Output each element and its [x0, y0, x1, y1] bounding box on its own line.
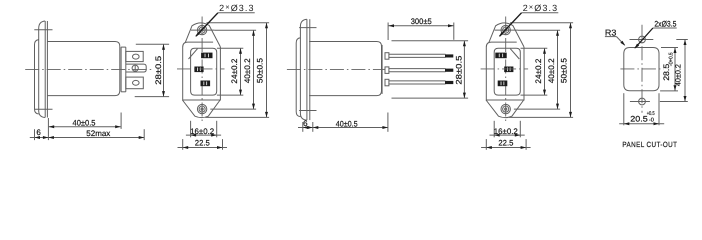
panel cut-out horizontal center line: [620, 68, 663, 70]
pin contact top view 4: [496, 53, 506, 58]
dimension 6 and 52max view 1: [30, 128, 144, 140]
mounting hole top Ø3.3 view 4: [495, 25, 518, 34]
dimension 40±0.2 holes view 4: [514, 30, 560, 109]
mounting ear bottom view 4: [486, 100, 524, 118]
mounting ear bottom view 2: [182, 100, 220, 118]
svg-text:+0.5: +0.5: [669, 53, 675, 62]
faston tab top (line terminal): [126, 51, 143, 61]
mounting ear top view 2: [185, 23, 220, 47]
svg-text:22.5: 22.5: [195, 139, 211, 148]
bezel face outline view 2: [183, 42, 221, 100]
panel hole bottom Ø3.5: [630, 98, 688, 105]
label 2×Ø3.3 with leader view 4: [499, 3, 558, 37]
horizontal center line view 4: [481, 68, 528, 70]
center line view 1: [25, 68, 154, 70]
pin contact top view 2: [202, 53, 212, 58]
svg-text:+0.5: +0.5: [647, 111, 655, 117]
wire 1 (line lead): [389, 54, 453, 57]
panel hole top Ø3.5: [630, 36, 688, 43]
dimension 22.5 bottom view 4: [481, 139, 530, 150]
wire 3 (neutral lead): [389, 81, 453, 84]
svg-text:40±0.5: 40±0.5: [336, 119, 358, 128]
svg-text:40±0.5: 40±0.5: [73, 119, 97, 128]
faston tab middle (ground terminal): [126, 64, 146, 72]
svg-text:50±0.5: 50±0.5: [560, 58, 569, 84]
svg-text:40±0.2: 40±0.2: [243, 58, 252, 84]
pin contact bottom view 4: [498, 81, 507, 86]
bezel face outline view 4: [486, 42, 524, 100]
center line view 3: [287, 68, 385, 70]
dimension 22.5 bottom view 2: [178, 139, 228, 150]
dimension 40±0.2 holes view 2: [210, 30, 256, 109]
mounting hole bottom Ø3.3 view 2: [197, 104, 206, 113]
mounting ear top view 4: [489, 23, 524, 47]
svg-text:40±0.2: 40±0.2: [547, 58, 556, 84]
label 2xØ3.5 with leader: [634, 20, 676, 49]
panel cut-out rectangle: [624, 48, 659, 91]
wire seals view 3: [385, 53, 389, 86]
svg-text:R3: R3: [605, 27, 617, 37]
filter side view 1 - rear bracket plate: [121, 47, 126, 92]
label R3 with leader: [605, 27, 625, 45]
dimension 16±0.2 bottom view 4: [490, 121, 525, 138]
faston tab bottom (neutral terminal): [126, 77, 144, 89]
label 2×Ø3.3 with leader view 2: [195, 3, 254, 37]
dimension 24±0.2 view 4: [521, 48, 548, 95]
wire 2 (earth lead): [389, 69, 453, 72]
pin contact middle (earth) view 2: [195, 67, 203, 72]
vertical center line view 4: [505, 17, 507, 124]
svg-text:6: 6: [303, 119, 308, 128]
dimension 6 and 40±0.5 view 3: [298, 113, 388, 132]
dimension 40±0.5 view 1: [48, 113, 121, 141]
dimension 50±0.5 overall view 2: [205, 23, 269, 118]
mounting hole bottom Ø3.3 view 4: [501, 104, 510, 113]
svg-text:22.5: 22.5: [498, 139, 514, 148]
vertical center line view 2: [201, 17, 203, 124]
dimension 28.5 +0.5/-0: [660, 48, 678, 91]
svg-text:28±0.5: 28±0.5: [455, 55, 464, 85]
svg-text:2×Ø3.3: 2×Ø3.3: [219, 3, 255, 13]
svg-text:PANEL CUT-OUT: PANEL CUT-OUT: [622, 140, 677, 149]
svg-text:300±5: 300±5: [411, 17, 433, 26]
filter side view 3 - case body: [309, 42, 382, 96]
svg-text:2×Ø3.3: 2×Ø3.3: [523, 3, 559, 13]
dimension 50±0.5 overall view 4: [509, 23, 573, 118]
svg-text:16±0.2: 16±0.2: [494, 127, 519, 136]
dimension 16±0.2 bottom view 2: [186, 121, 221, 138]
pin contact middle (earth) view 4: [505, 67, 513, 72]
svg-text:50±0.5: 50±0.5: [256, 58, 265, 84]
filter body side view 1 - case body: [47, 42, 119, 96]
C14 inlet opening view 4: [494, 48, 520, 95]
svg-text:16±0.2: 16±0.2: [190, 127, 215, 136]
caption PANEL CUT-OUT: [622, 140, 677, 149]
svg-text:-0: -0: [649, 117, 654, 123]
svg-text:6: 6: [36, 128, 41, 137]
svg-text:28±0.5: 28±0.5: [154, 55, 163, 85]
svg-text:24±0.2: 24±0.2: [534, 58, 543, 84]
filter body side view 1 - mounting flange: [34, 21, 52, 118]
svg-text:24±0.2: 24±0.2: [230, 58, 239, 84]
dimension 24±0.2 view 2: [217, 48, 243, 95]
pin contact bottom view 2: [201, 81, 210, 86]
dimension 300±5 wires: [388, 17, 454, 40]
panel cut-out vertical center line: [641, 25, 643, 113]
filter side view 3 - mounting flange: [296, 19, 316, 120]
svg-text:40±0.2: 40±0.2: [674, 64, 683, 86]
dimension 40±0.2 holes panel: [674, 40, 687, 102]
dimension 28±0.5 view 1: [135, 44, 169, 96]
svg-text:2xØ3.5: 2xØ3.5: [654, 20, 676, 29]
horizontal center line view 2: [177, 68, 225, 70]
dimension 20.5 +0.5/-0: [619, 93, 664, 125]
svg-text:20.5: 20.5: [630, 114, 648, 123]
C14 inlet opening view 2: [189, 48, 217, 95]
mounting hole top Ø3.3 view 2: [191, 25, 214, 34]
dimension 28±0.5 view 3: [392, 41, 469, 98]
svg-text:52max: 52max: [86, 129, 110, 138]
